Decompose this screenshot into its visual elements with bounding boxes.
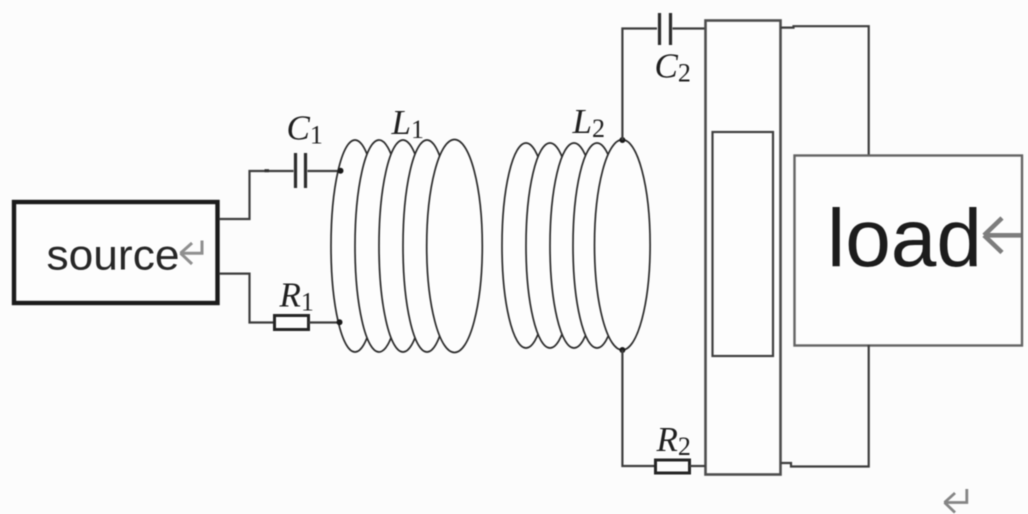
svg-text:load: load [827, 193, 982, 284]
wire load bottom to barrier [781, 345, 869, 467]
resistor R1 [275, 316, 309, 330]
load box [795, 156, 1023, 346]
wire L2 top to C2 [622, 29, 657, 141]
wire source to R1 [219, 274, 274, 323]
node dot bottom of L1 [337, 319, 343, 325]
svg-text:source: source [47, 232, 180, 280]
capacitor C2 [660, 13, 671, 45]
wire C1 to L1 [308, 170, 341, 172]
wire barrier to load top [781, 26, 869, 156]
return arrow bottom right [944, 489, 967, 513]
return arrow after source [180, 241, 202, 265]
node dot top of L1 [338, 168, 344, 174]
node dot bottom of L2 [619, 347, 625, 353]
barrier outer rectangle [706, 21, 781, 475]
wire L2 bottom to R2 [622, 350, 655, 466]
wire R1 to L1 [309, 321, 340, 323]
barrier inner rectangle [713, 132, 774, 356]
wire C2 to barrier [673, 27, 706, 29]
source box [14, 202, 218, 303]
node dot top of L2 [619, 137, 625, 143]
resistor R2 [656, 460, 690, 473]
wire source to C1 [219, 171, 294, 219]
inductor L1 [331, 140, 482, 353]
wire R2 to barrier [690, 465, 706, 467]
inductor L2 [502, 140, 650, 350]
arrow into load [984, 218, 1021, 253]
capacitor C1 [296, 153, 306, 188]
junction blob on wire [265, 169, 270, 172]
